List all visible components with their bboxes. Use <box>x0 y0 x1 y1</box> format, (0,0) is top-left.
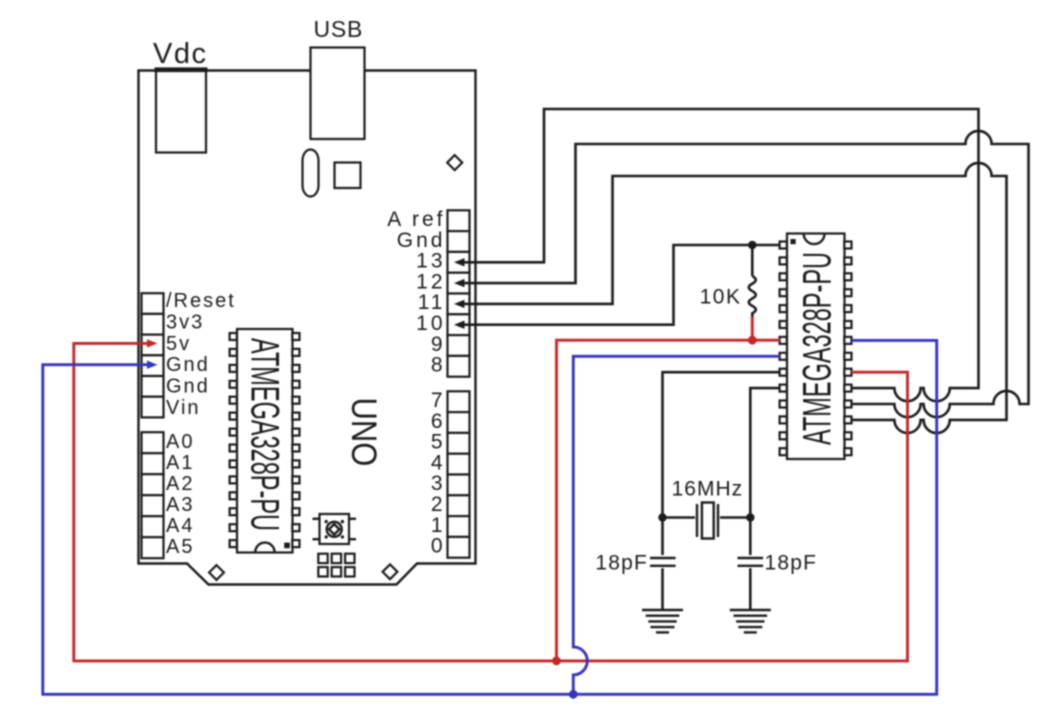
left power header pins (/Reset,3v3,5v,Gnd,Gnd,Vin) <box>142 293 164 417</box>
svg-text:4: 4 <box>431 451 446 474</box>
svg-text:Gnd: Gnd <box>397 229 446 252</box>
junction node red bottom <box>552 657 561 666</box>
svg-text:UNO: UNO <box>343 398 382 467</box>
blue arrow into Gnd pin <box>147 361 158 369</box>
chip U1 pin-1 dot <box>284 543 290 549</box>
Vdc power connector <box>155 69 208 153</box>
arrow into pin 12 <box>454 279 465 287</box>
svg-text:9: 9 <box>431 333 446 356</box>
svg-text:7: 7 <box>431 389 446 412</box>
capacitor C1 bottom lead <box>661 568 664 609</box>
capacitor C2 bottom lead <box>749 568 752 609</box>
red arrow into 5v pin <box>147 339 158 347</box>
svg-text:Vdc: Vdc <box>153 38 207 70</box>
svg-text:12: 12 <box>416 270 445 293</box>
junction node: resistor top <box>748 241 757 250</box>
svg-text:Gnd: Gnd <box>166 376 210 398</box>
arrow into pin 11 <box>454 300 465 308</box>
svg-text:A ref: A ref <box>387 208 445 231</box>
crystal Y1 left lead <box>663 516 696 519</box>
right digital header labels (Aref,Gnd,13-8) <box>387 208 445 377</box>
svg-text:18pF: 18pF <box>765 552 818 575</box>
wire: U2 pin 9 XTAL1 to crystal left <box>663 372 781 555</box>
ICSP header 3x2 pads <box>318 554 354 577</box>
ground symbol under C2 <box>730 610 771 632</box>
svg-text:11: 11 <box>418 291 446 314</box>
svg-text:1: 1 <box>431 514 446 537</box>
capacitor C1 18pF plates <box>650 558 676 566</box>
ground symbol under C1 <box>642 610 683 632</box>
chip U1 right pins <box>292 333 299 547</box>
svg-text:3v3: 3v3 <box>166 311 204 333</box>
svg-text:8: 8 <box>431 354 446 377</box>
svg-text:18pF: 18pF <box>595 552 648 575</box>
chip U2 ATMEGA328P-PU: body <box>787 234 845 460</box>
wire: U2 pin 10 XTAL2 to crystal right <box>750 388 780 555</box>
wire red branch to U2 pin 7 VCC through resistor node <box>557 340 781 661</box>
USB connector <box>311 48 365 140</box>
svg-text:10K: 10K <box>700 286 742 309</box>
wire blue branch to U2 pin 8 GND with hop over red <box>573 356 780 694</box>
wire: Arduino pin 10 to U2 pin 1 (RESET) <box>458 245 780 325</box>
chip U2 right pins <box>844 242 851 456</box>
junction node red resistor bottom <box>748 336 757 345</box>
chip U2 pin-1 dot <box>791 239 796 244</box>
junction node crystal right <box>746 513 754 521</box>
wire: Arduino pin 11 to U2 pin 17 (MOSI) <box>458 163 1007 433</box>
svg-text:5v: 5v <box>166 333 191 355</box>
right digital header pins (Aref,Gnd,13-8) <box>448 210 470 376</box>
Arduino UNO board outline <box>139 71 476 585</box>
capacitor C2 18pF plates <box>738 558 764 566</box>
reset button S1 <box>313 514 357 544</box>
mounting hole diamond bottom-left <box>209 565 224 580</box>
svg-text:/Reset: /Reset <box>166 290 236 312</box>
wire: Arduino pin 13 to U2 pin 19 (SCK) <box>458 109 979 401</box>
junction node blue bottom <box>569 690 578 699</box>
wire blue GND: Arduino Gnd pin around bottom to U2 pin 22 GND <box>43 340 937 694</box>
crystal Y1 right lead <box>720 516 750 519</box>
svg-text:5: 5 <box>431 431 446 454</box>
left power header labels <box>166 290 236 419</box>
junction node crystal left <box>658 513 666 521</box>
chip U1 notch <box>255 543 274 553</box>
svg-text:USB: USB <box>314 16 364 42</box>
svg-text:A3: A3 <box>166 494 194 516</box>
chip U2 left pins <box>780 242 787 456</box>
svg-text:Gnd: Gnd <box>166 354 210 376</box>
wire red 5V: Arduino 5v pin around bottom to U2 pin 20 AVCC <box>74 343 908 661</box>
svg-text:13: 13 <box>416 250 445 273</box>
resistor R1 bottom lead (red net) <box>751 317 754 340</box>
board small square part <box>335 163 361 189</box>
svg-text:10: 10 <box>416 312 445 335</box>
right digital header pins (7-0) <box>448 391 470 557</box>
wire: Arduino pin 12 to U2 pin 18 (MISO) <box>458 131 1029 417</box>
svg-text:A2: A2 <box>166 473 194 495</box>
crystal Y1 symbol <box>697 503 718 539</box>
svg-text:Vin: Vin <box>166 397 201 419</box>
right digital header labels (7-0) <box>431 389 446 558</box>
svg-text:3: 3 <box>431 472 446 495</box>
svg-text:16MHz: 16MHz <box>672 478 744 501</box>
svg-text:A4: A4 <box>166 515 194 537</box>
svg-text:6: 6 <box>431 410 446 433</box>
mounting hole diamond bottom-right <box>383 564 398 579</box>
svg-text:ATMEGA328P-PU: ATMEGA328P-PU <box>796 252 840 445</box>
mounting hole diamond top-right <box>447 155 462 170</box>
chip U1 left pins <box>230 333 237 547</box>
svg-text:A5: A5 <box>166 536 194 558</box>
op chip U1 ATMEGA328P-PU on board: body <box>237 329 293 553</box>
left analog header labels <box>166 431 194 558</box>
board oscillator oval <box>303 150 319 197</box>
arrow into pin 13 <box>454 258 465 266</box>
left analog header pins A0-A5 <box>142 432 164 558</box>
svg-text:A1: A1 <box>166 452 194 474</box>
resistor R1 10K body <box>749 245 756 317</box>
svg-text:A0: A0 <box>166 431 194 453</box>
arrow into pin 10 <box>454 321 465 329</box>
chip U2 notch <box>804 234 825 244</box>
svg-text:ATMEGA328P-PU: ATMEGA328P-PU <box>242 338 286 531</box>
svg-text:0: 0 <box>431 535 446 558</box>
svg-text:2: 2 <box>431 493 446 516</box>
